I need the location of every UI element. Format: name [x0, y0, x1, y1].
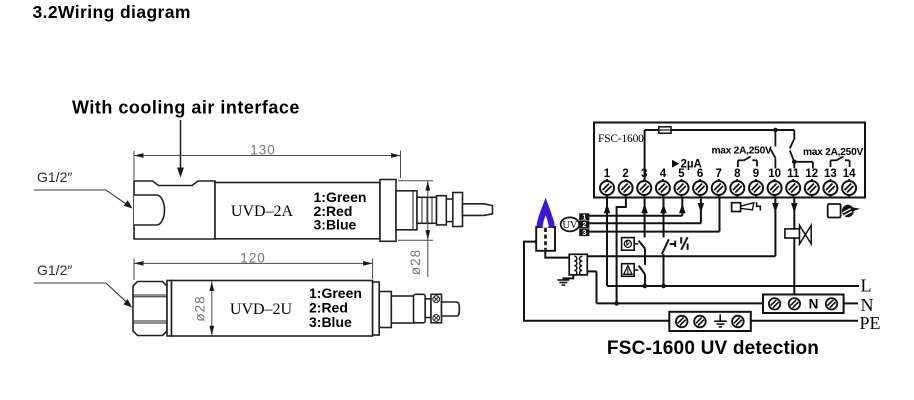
svg-text:130: 130 — [250, 143, 276, 158]
svg-text:3:Blue: 3:Blue — [309, 314, 352, 330]
svg-text:2: 2 — [622, 168, 628, 180]
svg-text:3:Blue: 3:Blue — [314, 217, 357, 233]
svg-text:11: 11 — [787, 168, 800, 180]
svg-text:3.2Wiring diagram: 3.2Wiring diagram — [33, 2, 191, 22]
svg-text:L: L — [861, 276, 872, 296]
svg-text:13: 13 — [824, 168, 837, 180]
svg-text:1: 1 — [604, 168, 611, 180]
svg-text:3: 3 — [582, 228, 586, 237]
svg-text:G1/2″: G1/2″ — [37, 169, 72, 185]
svg-text:N: N — [861, 295, 874, 315]
svg-text:ø28: ø28 — [193, 295, 208, 321]
svg-text:max 2A,250V: max 2A,250V — [711, 146, 772, 157]
svg-text:UV: UV — [562, 220, 578, 231]
svg-text:G1/2″: G1/2″ — [37, 262, 72, 278]
svg-text:UVD–2A: UVD–2A — [231, 203, 294, 220]
svg-text:PE: PE — [860, 313, 881, 333]
svg-text:6: 6 — [697, 168, 703, 180]
svg-text:N: N — [809, 297, 819, 312]
svg-text:5: 5 — [678, 168, 685, 180]
svg-text:8: 8 — [734, 168, 741, 180]
svg-text:120: 120 — [240, 251, 266, 266]
svg-text:10: 10 — [768, 168, 781, 180]
svg-text:max 2A,250V: max 2A,250V — [803, 147, 864, 158]
svg-text:12: 12 — [805, 168, 818, 180]
svg-text:ø28: ø28 — [408, 249, 423, 275]
svg-text:FSC-1600: FSC-1600 — [598, 133, 644, 145]
svg-text:14: 14 — [843, 168, 856, 180]
svg-text:4: 4 — [660, 168, 667, 180]
svg-text:7: 7 — [715, 168, 721, 180]
svg-text:UVD–2U: UVD–2U — [230, 301, 293, 318]
svg-text:With cooling air interface: With cooling air interface — [72, 98, 300, 118]
svg-text:9: 9 — [753, 168, 759, 180]
svg-text:FSC-1600 UV detection: FSC-1600 UV detection — [607, 338, 819, 359]
svg-text:3: 3 — [641, 168, 647, 180]
